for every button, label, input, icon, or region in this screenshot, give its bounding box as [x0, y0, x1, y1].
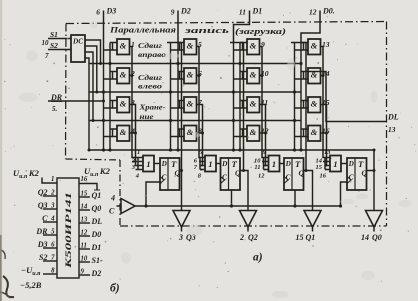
svg-text:−5,2В: −5,2В: [20, 280, 42, 290]
svg-text:1: 1: [137, 149, 140, 156]
svg-text:S2: S2: [39, 253, 47, 262]
AND gate 9 (&): [247, 39, 260, 55]
input D0 wire drop (pin 12): [301, 11, 320, 43]
svg-text:&: &: [311, 99, 318, 109]
svg-text:T: T: [171, 159, 177, 169]
svg-text:запись: запись: [183, 25, 229, 35]
svg-text:К500ИР141: К500ИР141: [63, 192, 73, 270]
svg-text:&: &: [187, 70, 194, 80]
wire: Q1 riser (stage 3 feedback): [291, 42, 306, 44]
gate 10 input bracket: [240, 71, 247, 73]
AND gate 6 (&): [184, 68, 197, 84]
pin 2 stub (Q2): [43, 195, 57, 197]
gate 6 input bracket: [178, 71, 184, 73]
svg-text:D3: D3: [37, 240, 48, 249]
pin 16 stub: [79, 184, 97, 191]
input S1 wire (pin 10): [48, 38, 71, 40]
svg-text:3: 3: [178, 233, 183, 242]
OR gate stage 3 (1): [269, 156, 280, 172]
AND gate 7 (&): [184, 97, 197, 113]
svg-text:11: 11: [239, 8, 246, 17]
input DL wire (pin 13): [308, 72, 387, 122]
svg-text:8: 8: [198, 173, 202, 180]
svg-text:9: 9: [81, 269, 85, 276]
svg-text:1: 1: [146, 159, 150, 169]
svg-text:S1-: S1-: [92, 256, 103, 265]
AND gate 1 (&): [117, 39, 130, 55]
input S2 wire (pin 7): [48, 49, 71, 51]
wire: FF3 Q output to buffer: [304, 171, 313, 211]
pin 9 stub (D2): [79, 274, 90, 276]
IC boundary bottom edge: [120, 225, 387, 227]
AND gate 14 (&): [308, 68, 321, 84]
svg-text:1: 1: [51, 176, 54, 183]
gate 3 input bracket: [110, 100, 117, 102]
svg-text:7: 7: [194, 164, 198, 171]
scan artifact: bottom-left page edge marks: [3, 276, 14, 297]
wire: column 1 gate outputs bus A (gates 1,2): [130, 47, 139, 158]
wire: clock rail to FF3 C input: [294, 190, 296, 206]
svg-text:14: 14: [81, 204, 88, 211]
AND gate 15 (&): [308, 97, 321, 113]
gate 12 input bracket: [240, 128, 247, 130]
flip-flop T4 box: [347, 158, 368, 190]
gate 4 input bracket: [110, 128, 117, 130]
output wire Q2 (pin 2): [247, 227, 249, 232]
pin 15 stub (Q1): [79, 196, 90, 198]
wire: comb feeds stage 2: [199, 161, 200, 163]
output wire Q1 (pin 15): [312, 227, 314, 232]
svg-text:4: 4: [135, 173, 140, 180]
svg-text:D1: D1: [252, 7, 263, 16]
pin 13 stub (DL): [79, 222, 90, 224]
wire: column 2 outer feed vertical: [170, 43, 172, 151]
svg-text:13: 13: [388, 125, 396, 134]
wire: column 3 gate outputs bus A (gates 9,10): [260, 47, 264, 158]
svg-text:D0: D0: [91, 230, 102, 239]
junction dots column 3: [232, 90, 235, 93]
svg-text:S1: S1: [50, 30, 58, 39]
svg-text:11: 11: [254, 164, 260, 171]
AND gate 4 (&): [117, 126, 130, 142]
gate 1 input bracket: [110, 42, 117, 44]
wire: column 2 gate outputs bus A (gates 5,6): [197, 47, 201, 158]
svg-text:11: 11: [81, 243, 87, 250]
svg-text:7: 7: [45, 52, 49, 60]
wire: column 4 inner feed vertical: [300, 43, 302, 151]
pin 6 stub (D3): [43, 247, 57, 249]
OR gate stage 3 input comb: [263, 158, 265, 170]
svg-text:DR: DR: [35, 227, 48, 236]
svg-text:15: 15: [296, 233, 304, 242]
svg-text:&: &: [120, 127, 127, 137]
svg-text:13: 13: [81, 217, 88, 224]
svg-text:12: 12: [309, 8, 317, 17]
svg-text:б): б): [110, 283, 120, 295]
svg-text:S2: S2: [50, 41, 58, 50]
svg-text:Хране-: Хране-: [138, 103, 166, 112]
svg-text:12: 12: [258, 173, 265, 180]
AND gate 13 (&): [308, 39, 321, 55]
svg-text:вправо: вправо: [138, 50, 166, 59]
gate 14 input bracket: [301, 71, 308, 73]
svg-text:9: 9: [171, 8, 175, 17]
svg-text:4: 4: [110, 194, 115, 203]
svg-text:&: &: [250, 99, 257, 109]
svg-text:D3: D3: [106, 7, 117, 16]
svg-text:6: 6: [96, 8, 100, 17]
wire: column 4 outer feed vertical: [294, 43, 296, 151]
svg-text:Uи.пК2: Uи.пК2: [13, 168, 40, 180]
output buffer Q3: [173, 211, 190, 228]
gate 15 input bracket: [301, 100, 308, 102]
svg-text:влево: влево: [138, 82, 162, 91]
pin 4 stub (C): [43, 221, 57, 223]
flip-flop T1 box: [160, 158, 181, 190]
input D2 wire drop (pin 9): [177, 11, 179, 43]
svg-text:D: D: [348, 160, 355, 168]
OR gate stage 2 input comb: [199, 158, 201, 170]
svg-text:Q1: Q1: [92, 191, 102, 200]
AND gate 3 (&): [117, 97, 130, 113]
AND gate 5 (&): [184, 39, 197, 55]
IC package boundary (dash-dot chain line), top edge: [66, 22, 387, 24]
svg-text:&: &: [120, 41, 127, 51]
svg-text:D2: D2: [91, 269, 102, 278]
flip-flop T3 box: [284, 158, 305, 190]
decoder DC box: [71, 35, 85, 62]
wire: Q3 riser (stage 1 feedback): [167, 42, 182, 44]
svg-text:Q0: Q0: [92, 204, 102, 213]
svg-text:10: 10: [42, 39, 50, 47]
IC boundary notch horizontal: [66, 159, 121, 160]
svg-text:T: T: [232, 159, 238, 169]
svg-text:D: D: [285, 160, 292, 168]
wire OR3 output to FF3 D input: [280, 163, 285, 165]
wire: column 3 gate outputs bus B (gates 11,12): [260, 105, 266, 166]
mode rail 2 (shift left row): [89, 91, 301, 93]
svg-text:&: &: [120, 70, 127, 80]
svg-text:Сдвиг: Сдвиг: [138, 41, 162, 50]
svg-text:2: 2: [239, 233, 244, 242]
svg-text:10: 10: [81, 256, 88, 263]
pin 8 stub (-Uип): [43, 273, 57, 275]
svg-text:&: &: [187, 99, 194, 109]
pin 12 stub (D0): [79, 235, 90, 237]
svg-text:&: &: [311, 127, 318, 137]
OR gate stage 1 input comb: [137, 158, 139, 170]
svg-text:5: 5: [51, 229, 55, 236]
input D3 wire drop (pin 6): [103, 11, 105, 43]
input DR wire (pin 5): [48, 100, 104, 102]
wire: comb feeds stage 4: [323, 161, 325, 163]
svg-text:13: 13: [324, 149, 331, 156]
svg-text:5.: 5.: [52, 105, 58, 113]
wire: DC output 1 to mode rail 1: [85, 40, 101, 64]
svg-text:ние: ние: [140, 112, 155, 121]
svg-text:T: T: [295, 159, 301, 169]
svg-text:Q1: Q1: [306, 233, 316, 242]
svg-text:Q3: Q3: [38, 201, 48, 210]
clock input stub (pin 4): [117, 205, 122, 207]
svg-text:DR: DR: [50, 93, 63, 102]
svg-text:16: 16: [320, 173, 327, 180]
gate 11 input bracket: [240, 100, 247, 102]
wire: column 1 gate outputs bus B (gates 3,4): [130, 105, 139, 166]
scan artifact: left edge shading: [0, 0, 2, 301]
wire OR4 output to FF4 D input: [341, 163, 347, 165]
svg-text:6: 6: [51, 242, 55, 249]
svg-text:15: 15: [81, 191, 88, 198]
wire: clock rail to FF1 C input: [146, 182, 160, 206]
wire: DC output 4 to mode rail 4: [85, 58, 89, 150]
junction dots column 4: [293, 90, 296, 93]
svg-text:а): а): [253, 252, 263, 264]
wire: FF1 Q output to buffer: [180, 171, 182, 211]
svg-text:1: 1: [333, 159, 337, 169]
wire: column 3 outer feed vertical: [233, 43, 235, 151]
wire OR1 output to FF1 D input: [154, 163, 160, 165]
svg-text:&: &: [250, 41, 257, 51]
svg-text:8: 8: [51, 268, 55, 275]
wire: column 3 inner feed vertical: [239, 43, 241, 151]
wire: column 2 inner feed vertical: [177, 43, 179, 151]
svg-text:DL: DL: [91, 217, 103, 226]
clock buffer amplifier: [121, 199, 135, 214]
svg-text:14: 14: [361, 233, 369, 242]
pin 14 stub (Q0): [79, 209, 90, 211]
OR gate stage 2 (1): [205, 156, 216, 172]
clock distribution rail: [135, 205, 341, 207]
gate 5 input bracket: [178, 42, 184, 44]
svg-text:DC: DC: [72, 38, 83, 46]
svg-text:Q0: Q0: [372, 233, 382, 242]
pin 1 stub: [42, 178, 57, 184]
wire: FF2 Q output to buffer: [240, 171, 248, 211]
wire: column 4 gate outputs bus B (gates 15,16): [321, 105, 327, 166]
svg-text:D: D: [161, 160, 168, 168]
svg-text:1: 1: [272, 159, 276, 169]
wire: FF4 Q output to buffer: [367, 171, 375, 211]
gate 9 input bracket: [240, 42, 247, 44]
IC boundary left edge: [65, 24, 68, 160]
svg-text:D2: D2: [180, 7, 191, 16]
output buffer Q2: [240, 211, 257, 228]
output wire Q3 (pin 3): [181, 227, 183, 232]
wire: column 1 outer feed vertical: [103, 43, 105, 151]
AND gate 11 (&): [247, 97, 260, 113]
svg-text:&: &: [250, 70, 257, 80]
IC boundary right edge: [386, 22, 388, 227]
pin 10 stub (S1-): [79, 261, 90, 263]
svg-text:−Uи.п: −Uи.п: [21, 265, 41, 277]
svg-text:Параллельная: Параллельная: [109, 25, 177, 35]
svg-text:C: C: [42, 214, 48, 223]
wire: clock rail to FF4 C input: [341, 182, 348, 206]
svg-text:D: D: [221, 160, 228, 168]
pin 11 stub (D1): [79, 248, 90, 250]
AND gate 12 (&): [247, 126, 260, 142]
svg-text:4: 4: [50, 216, 55, 223]
OR gate stage 4 input comb: [324, 158, 326, 170]
input D1 wire drop (pin 11): [234, 11, 250, 43]
junction dots column 2: [169, 90, 172, 93]
svg-text:Uи.пК2: Uи.пК2: [84, 166, 111, 178]
gate 13 input bracket: [301, 42, 308, 44]
mode rail 1 (shift right row): [89, 63, 301, 65]
svg-text:T: T: [358, 159, 364, 169]
pin 5 stub (DR): [43, 234, 57, 236]
pinout IC body K500IR141: [57, 178, 79, 278]
svg-text:1: 1: [208, 159, 212, 169]
output buffer Q0: [366, 211, 383, 228]
gate 8 input bracket: [178, 128, 184, 130]
wire: comb feeds stage 1: [132, 161, 138, 163]
output buffer Q1: [304, 211, 321, 228]
gate 2 input bracket: [110, 71, 117, 73]
wire: column 2 gate outputs bus B (gates 7,8): [197, 105, 203, 166]
wire: Q0 riser (stage 4 feedback): [373, 150, 375, 171]
mode rail 4 (parallel load row): [89, 149, 374, 151]
AND gate 16 (&): [308, 126, 321, 142]
svg-text:15: 15: [316, 164, 323, 171]
wire: comb feeds stage 3: [262, 161, 264, 163]
output wire Q0 (pin 14): [373, 227, 375, 232]
AND gate 10 (&): [247, 68, 260, 84]
wire: clock rail to FF2 C input: [231, 190, 233, 206]
IC boundary notch vertical: [119, 160, 121, 226]
svg-text:&: &: [311, 41, 318, 51]
svg-text:Q2: Q2: [248, 233, 258, 242]
wire OR2 output to FF2 D input: [216, 163, 221, 165]
svg-text:Q2: Q2: [38, 188, 48, 197]
wire: column 1 inner feed vertical: [109, 43, 111, 151]
pin 3 stub (Q3): [43, 208, 57, 210]
svg-text:(загрузка): (загрузка): [235, 26, 286, 36]
OR gate stage 4 (1): [330, 156, 341, 172]
svg-text:&: &: [120, 99, 127, 109]
AND gate 2 (&): [117, 68, 130, 84]
OR gate stage 1 (1): [143, 156, 154, 172]
scan artifact: speckles: [198, 196, 200, 198]
svg-text:&: &: [250, 127, 257, 137]
AND gate 8 (&): [184, 126, 197, 142]
gate 16 input bracket: [301, 128, 308, 130]
gate 7 input bracket: [178, 100, 184, 102]
wire: column 4 gate outputs bus A (gates 13,14): [321, 47, 326, 158]
mode rail 3 (storage row): [89, 120, 301, 122]
svg-text:3: 3: [50, 203, 55, 210]
wire: DC output 2 to mode rail 2: [85, 46, 97, 92]
svg-text:DL: DL: [387, 113, 399, 122]
svg-text:&: &: [187, 41, 194, 51]
flip-flop T2 box: [221, 158, 242, 190]
pin 7 stub (S2): [43, 260, 57, 262]
svg-text:7: 7: [51, 255, 55, 262]
wire: Q2 riser (stage 2 feedback): [230, 42, 244, 44]
wire: DC output 3 to mode rail 3: [85, 52, 93, 121]
svg-text:C: C: [109, 207, 115, 216]
svg-text:12: 12: [81, 230, 88, 237]
svg-text:D0.: D0.: [322, 7, 335, 16]
junction dots column 1: [102, 90, 105, 93]
svg-text:2: 2: [50, 190, 55, 197]
svg-text:D1: D1: [91, 243, 102, 252]
